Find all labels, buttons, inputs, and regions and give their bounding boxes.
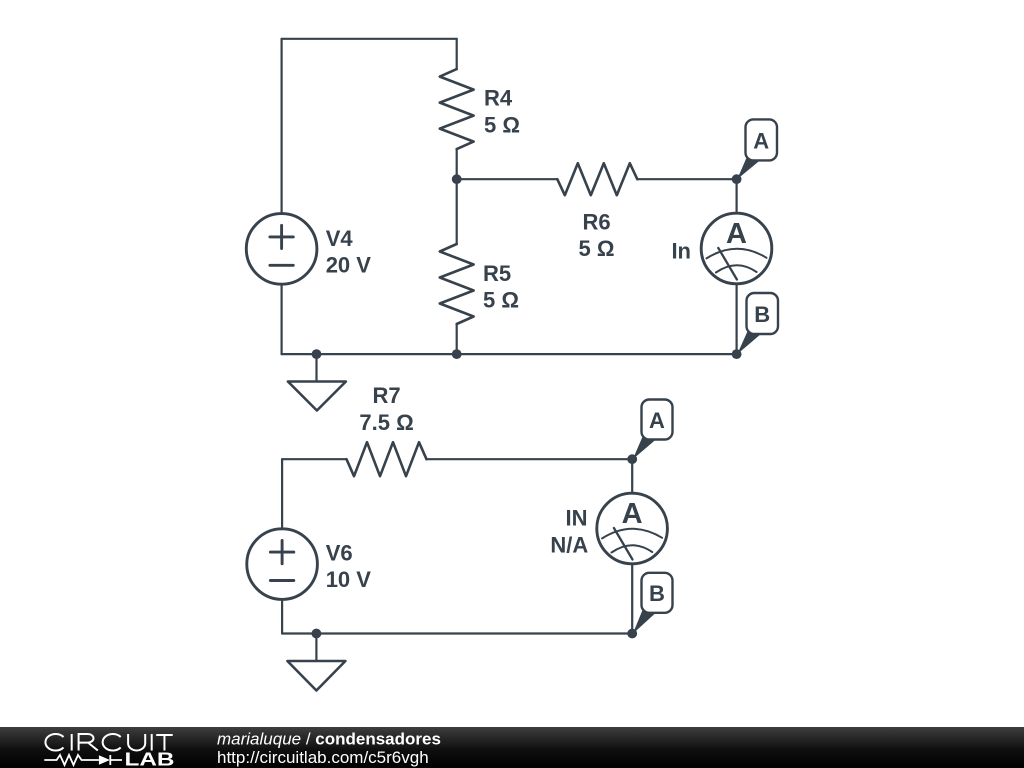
wire top (V4 top to R4 top) xyxy=(282,38,457,40)
node ground tap (bottom circuit) xyxy=(312,629,322,639)
flag A (bottom circuit) xyxy=(633,400,673,460)
label R4 5ohm xyxy=(484,86,520,138)
svg-text:N/A: N/A xyxy=(550,532,588,557)
wire bottom rail (bottom circuit) xyxy=(282,632,632,634)
svg-text:7.5 Ω: 7.5 Ω xyxy=(359,410,413,435)
svg-text:B: B xyxy=(754,302,770,327)
flag A (top circuit) xyxy=(737,119,777,179)
node R5 bottom xyxy=(452,349,462,359)
svg-text:5 Ω: 5 Ω xyxy=(484,112,520,137)
svg-text:R6: R6 xyxy=(582,209,610,234)
label R5 5ohm xyxy=(483,261,519,313)
wire left (top corner down to V4) xyxy=(281,39,283,214)
label V4 20 V xyxy=(326,226,372,278)
node junction (R4/R5/R6) xyxy=(452,174,462,184)
resistor R5 xyxy=(440,179,474,354)
svg-text:A: A xyxy=(753,128,769,153)
resistor R6 xyxy=(457,163,737,195)
svg-text:20 V: 20 V xyxy=(326,253,372,278)
wire meter2 bottom xyxy=(631,564,633,634)
node B (meter2 bottom junction) xyxy=(627,629,637,639)
svg-text:marialuque / condensadores: marialuque / condensadores xyxy=(217,730,441,749)
logo resistor-diode glyph xyxy=(44,755,122,765)
svg-text:LAB: LAB xyxy=(125,750,175,768)
wire bottom rail (top circuit) xyxy=(282,353,737,355)
node A (meter1 top junction) xyxy=(732,174,742,184)
svg-text:A: A xyxy=(726,218,747,250)
voltage source V6 xyxy=(247,529,318,600)
svg-text:R4: R4 xyxy=(484,86,513,111)
svg-text:IN: IN xyxy=(566,506,588,531)
svg-text:5 Ω: 5 Ω xyxy=(579,236,615,261)
svg-text:V4: V4 xyxy=(326,226,354,251)
footer bar xyxy=(0,727,1024,768)
wire V4 bottom xyxy=(281,284,283,354)
wire meter1 top xyxy=(735,179,737,213)
ammeter U2 (IN N/A) xyxy=(597,493,668,564)
wire meter1 bottom xyxy=(735,284,737,354)
resistor R7 xyxy=(347,442,633,476)
flag B (bottom circuit) xyxy=(633,573,673,634)
ammeter U1 (In) xyxy=(701,213,772,284)
node ground tap (top circuit) xyxy=(312,349,322,359)
flag B (top circuit) xyxy=(737,293,778,354)
svg-text:5 Ω: 5 Ω xyxy=(483,288,519,313)
wire V6 bottom xyxy=(281,599,283,633)
wire top rail (bottom circuit, left of R7) xyxy=(282,458,346,460)
svg-text:10 V: 10 V xyxy=(326,567,372,592)
svg-text:A: A xyxy=(622,498,643,530)
logo CIRCUIT xyxy=(45,734,172,751)
svg-text:R5: R5 xyxy=(483,261,511,286)
svg-text:In: In xyxy=(671,239,691,264)
svg-text:V6: V6 xyxy=(326,541,353,566)
voltage source V4 xyxy=(246,214,317,285)
label R7 7.5ohm xyxy=(359,383,413,435)
label V6 10 V xyxy=(326,541,372,593)
svg-text:A: A xyxy=(649,408,665,433)
ground (top circuit) xyxy=(288,354,346,410)
ground (bottom circuit) xyxy=(287,634,345,691)
svg-text:http://circuitlab.com/c5r6vgh: http://circuitlab.com/c5r6vgh xyxy=(217,748,429,767)
wire meter2 top xyxy=(631,459,633,493)
resistor R4 xyxy=(440,39,474,179)
node B (meter1 bottom junction) xyxy=(732,349,742,359)
svg-text:B: B xyxy=(649,581,665,606)
wire left (bottom circuit) xyxy=(281,459,283,529)
svg-text:R7: R7 xyxy=(373,383,401,408)
label R6 5ohm xyxy=(579,209,615,261)
node A (meter2 top junction) xyxy=(627,454,637,464)
label IN N/A xyxy=(550,506,588,558)
